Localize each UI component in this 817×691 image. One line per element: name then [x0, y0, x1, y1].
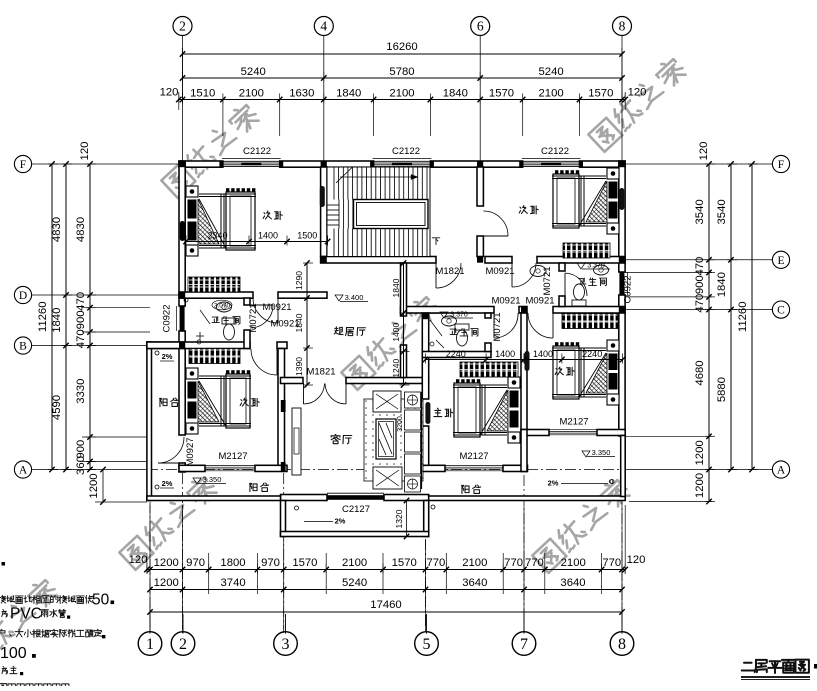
- svg-text:360: 360: [75, 456, 87, 475]
- svg-text:1800: 1800: [220, 557, 245, 569]
- svg-text:1320: 1320: [394, 509, 404, 528]
- svg-text:D: D: [19, 290, 27, 302]
- svg-text:1290: 1290: [294, 271, 304, 290]
- svg-text:1840: 1840: [336, 88, 361, 100]
- svg-text:1840: 1840: [716, 272, 728, 297]
- svg-text:3.370: 3.370: [450, 312, 468, 319]
- svg-text:1570: 1570: [489, 88, 514, 100]
- svg-text:4830: 4830: [51, 217, 63, 242]
- svg-text:1630: 1630: [289, 88, 314, 100]
- svg-text:1400: 1400: [391, 322, 401, 341]
- svg-text:M0721: M0721: [492, 312, 503, 341]
- svg-text:2100: 2100: [389, 88, 414, 100]
- svg-text:3540: 3540: [716, 199, 728, 224]
- svg-text:5240: 5240: [539, 66, 564, 78]
- svg-text:C2122: C2122: [243, 146, 271, 157]
- svg-text:1400: 1400: [533, 349, 553, 359]
- svg-text:8: 8: [618, 636, 626, 653]
- svg-text:120: 120: [627, 554, 646, 566]
- svg-text:2: 2: [179, 19, 186, 34]
- svg-text:8: 8: [619, 19, 626, 34]
- svg-text:120: 120: [628, 87, 647, 99]
- svg-text:2%: 2%: [162, 479, 173, 488]
- svg-text:4590: 4590: [51, 395, 63, 420]
- svg-text:E: E: [777, 255, 784, 267]
- svg-text:3.070: 3.070: [214, 303, 231, 310]
- svg-text:11260: 11260: [37, 302, 49, 333]
- svg-text:5880: 5880: [716, 377, 728, 402]
- svg-text:2340: 2340: [207, 231, 227, 241]
- svg-text:6: 6: [477, 19, 484, 34]
- svg-text:C: C: [777, 305, 785, 317]
- svg-text:M1821: M1821: [306, 367, 335, 378]
- svg-text:2100: 2100: [561, 557, 586, 569]
- svg-text:770: 770: [426, 557, 445, 569]
- svg-text:2100: 2100: [342, 557, 367, 569]
- svg-text:M0921: M0921: [270, 319, 299, 330]
- svg-text:M0927: M0927: [185, 437, 196, 466]
- svg-text:1240: 1240: [391, 358, 401, 377]
- svg-text:3: 3: [282, 636, 290, 653]
- svg-text:1400: 1400: [258, 231, 278, 241]
- svg-text:C2122: C2122: [392, 146, 420, 157]
- svg-text:5240: 5240: [342, 577, 367, 589]
- svg-text:2%: 2%: [162, 352, 173, 361]
- svg-text:3.350: 3.350: [203, 475, 222, 484]
- svg-text:970: 970: [186, 557, 205, 569]
- svg-text:4830: 4830: [75, 217, 87, 242]
- svg-text:1200: 1200: [694, 440, 706, 465]
- svg-text:1390: 1390: [294, 357, 304, 376]
- svg-text:1200: 1200: [154, 557, 179, 569]
- svg-text:1200: 1200: [694, 473, 706, 498]
- svg-text:970: 970: [261, 557, 280, 569]
- svg-text:2: 2: [179, 636, 187, 653]
- svg-text:F: F: [778, 159, 784, 171]
- svg-text:900: 900: [75, 440, 87, 459]
- svg-text:3640: 3640: [560, 577, 585, 589]
- svg-text:2240: 2240: [582, 349, 602, 359]
- svg-text:C2127: C2127: [342, 504, 370, 515]
- svg-text:16260: 16260: [386, 41, 417, 53]
- svg-text:2%: 2%: [548, 479, 559, 488]
- svg-text:770: 770: [525, 557, 544, 569]
- svg-text:770: 770: [504, 557, 523, 569]
- svg-text:C0922: C0922: [162, 305, 173, 333]
- svg-text:1570: 1570: [588, 88, 613, 100]
- svg-text:120: 120: [129, 554, 148, 566]
- svg-text:1570: 1570: [292, 557, 317, 569]
- svg-text:770: 770: [602, 557, 621, 569]
- svg-text:5: 5: [423, 636, 431, 653]
- svg-text:900: 900: [694, 275, 706, 294]
- svg-text:C0922: C0922: [623, 276, 634, 304]
- svg-text:3200: 3200: [397, 416, 404, 432]
- svg-text:3740: 3740: [221, 577, 246, 589]
- svg-text:1200: 1200: [154, 577, 179, 589]
- svg-text:2100: 2100: [239, 88, 264, 100]
- svg-text:1510: 1510: [190, 88, 215, 100]
- svg-text:5780: 5780: [389, 66, 414, 78]
- svg-text:2100: 2100: [539, 88, 564, 100]
- svg-text:3.370: 3.370: [587, 263, 605, 270]
- svg-text:M0921: M0921: [491, 296, 520, 307]
- svg-text:1400: 1400: [495, 349, 515, 359]
- svg-text:1840: 1840: [51, 308, 63, 333]
- svg-text:A: A: [777, 465, 786, 477]
- svg-text:1500: 1500: [297, 231, 317, 241]
- svg-text:M0721: M0721: [248, 303, 259, 332]
- svg-text:M2127: M2127: [459, 451, 488, 462]
- svg-text:120: 120: [79, 142, 91, 161]
- svg-text:PVC: PVC: [10, 606, 42, 623]
- svg-text:M1821: M1821: [435, 266, 464, 277]
- svg-text:3540: 3540: [694, 199, 706, 224]
- svg-text:1840: 1840: [443, 88, 468, 100]
- svg-text:11260: 11260: [737, 302, 749, 333]
- svg-text:5240: 5240: [241, 66, 266, 78]
- svg-text:M0921: M0921: [262, 302, 291, 313]
- svg-text:M0921: M0921: [525, 296, 554, 307]
- svg-text:F: F: [20, 159, 26, 171]
- svg-text:4680: 4680: [694, 360, 706, 385]
- svg-text:1840: 1840: [391, 278, 401, 297]
- svg-text:50: 50: [92, 592, 110, 609]
- svg-text:900: 900: [75, 310, 87, 329]
- svg-text:M2127: M2127: [559, 417, 588, 428]
- svg-text:M2127: M2127: [218, 451, 247, 462]
- svg-text:B: B: [19, 341, 27, 353]
- svg-text:3.400: 3.400: [345, 293, 364, 302]
- svg-text:A: A: [19, 465, 28, 477]
- svg-text:7: 7: [520, 636, 528, 653]
- svg-text:17460: 17460: [370, 599, 401, 611]
- svg-text:3330: 3330: [75, 379, 87, 404]
- svg-text:2%: 2%: [335, 517, 346, 526]
- svg-text:2240: 2240: [446, 349, 466, 359]
- svg-text:2100: 2100: [462, 557, 487, 569]
- svg-text:1570: 1570: [392, 557, 417, 569]
- svg-text:1200: 1200: [88, 473, 100, 498]
- svg-text:M0921: M0921: [485, 266, 514, 277]
- svg-text:120: 120: [698, 142, 710, 161]
- svg-text:4: 4: [320, 19, 327, 34]
- svg-text:C2122: C2122: [541, 146, 569, 157]
- svg-text:3640: 3640: [462, 577, 487, 589]
- svg-text:M0721: M0721: [542, 266, 553, 295]
- svg-text:100: 100: [0, 645, 27, 662]
- svg-text:120: 120: [160, 87, 179, 99]
- svg-text:1: 1: [146, 636, 154, 653]
- svg-text:3.350: 3.350: [592, 448, 611, 457]
